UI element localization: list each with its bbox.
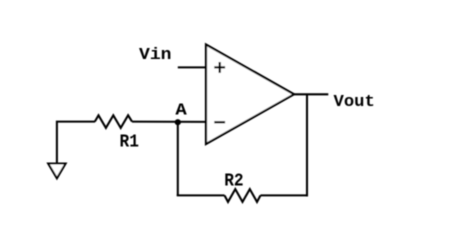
svg-text:R1: R1	[120, 131, 139, 152]
wire node A down to feedback	[177, 122, 179, 195]
resistor R1	[95, 115, 132, 128]
svg-text:Vin: Vin	[139, 45, 172, 64]
node A junction dot	[175, 119, 181, 125]
op-amp U1	[206, 45, 294, 145]
wire feedback bottom left	[177, 194, 225, 196]
wire feedback bottom right	[261, 194, 308, 196]
wire R1 to node A	[132, 121, 206, 123]
op-amp minus (inverting) pin mark	[214, 121, 225, 123]
wire Vin to + input	[178, 66, 206, 68]
svg-text:R2: R2	[224, 171, 243, 192]
wire op-amp output	[293, 93, 328, 95]
ground	[48, 164, 65, 179]
wire ground riser	[57, 122, 95, 163]
resistor R2	[225, 189, 261, 202]
op-amp plus (non-inverting) pin mark	[214, 62, 225, 73]
svg-text:Vout: Vout	[334, 92, 375, 111]
svg-text:A: A	[175, 101, 186, 120]
wire feedback riser to output	[306, 94, 308, 196]
